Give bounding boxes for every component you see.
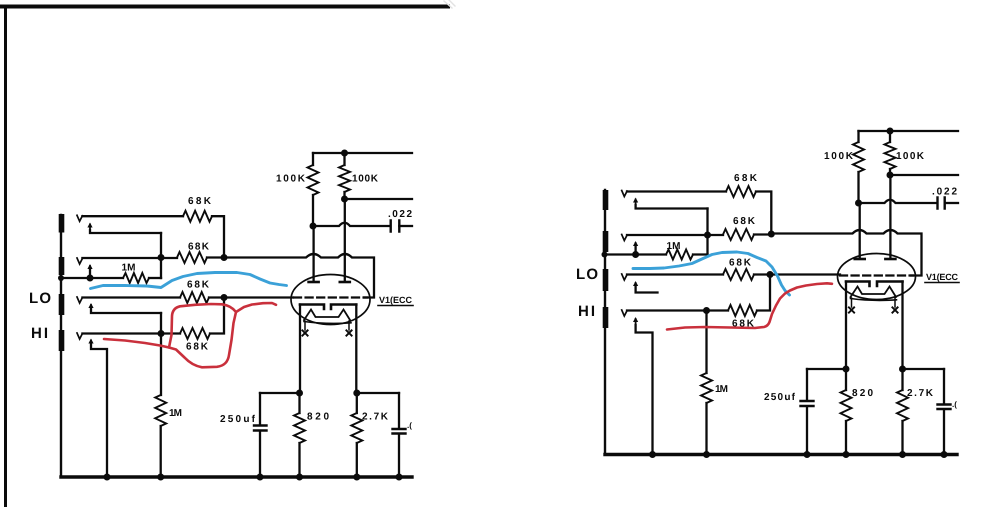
jack J7 LO tip contact V [622,274,627,280]
ground dot R10 [296,474,303,481]
resistor R2 68K (input J2) [177,252,207,263]
jack J4 HI tip contact V [77,333,82,339]
wire bus to 1M (right) [603,253,666,255]
junction dot J2 arrow [87,275,94,282]
node B2 junction dot [768,231,775,238]
jack J3 spring arrow [90,305,92,309]
wire J6 tip [627,234,723,236]
wire R13 right to node B2 [754,233,771,235]
heater lead 1 (right) [851,298,853,307]
svg-text:68K: 68K [186,342,209,353]
wire J4 tip to R5 [82,332,180,334]
cathode bracket left [300,305,324,310]
red annotation loop bottom (left circuit) [169,312,236,367]
resistor R10 820 [298,393,300,413]
wire R15 to grid1 of V1 (right) [754,273,840,275]
wire R4 to grid1 of V1 [209,296,293,298]
wire J1 arrow down/right [90,230,161,233]
svg-text:1M: 1M [667,241,681,252]
wire J7 tip to R15 [627,273,723,275]
resistor R5 68K (HI) [180,328,210,339]
node D2 junction dot [703,307,710,314]
grid dashed line [294,296,367,298]
resistor R7 1M (to ground) [155,395,166,426]
wire plate1 to C4 with hop [859,200,938,203]
ground dot J4 [104,474,111,481]
wire plate1 to C1 with hop [313,223,390,226]
junction dot on bus [58,275,64,281]
wire J8 arrow to ground [636,325,653,455]
junction dot J6 arrow [632,251,639,258]
jack J6 tip contact V [622,235,627,241]
jack J8 HI body bar [603,307,609,328]
svg-text:V1(ECC: V1(ECC [926,272,959,282]
wire R5 up to node C [210,298,224,334]
wire plate2 output [345,198,413,200]
ground bus vertical (left) [60,215,62,476]
resistor R11 2.7K [356,393,358,413]
cathode bracket right [331,305,356,310]
jack J1 body bar [59,214,65,233]
jack J7 LO body bar [603,269,609,291]
svg-text:.(: .( [407,421,412,430]
node G2 dot [843,366,850,373]
heater lead 2 [348,321,350,330]
svg-text:100K: 100K [824,151,854,162]
blue annotation line (right circuit) [633,252,790,295]
ground dot R7 [157,474,164,481]
node F dot (plate1/coupling) [310,223,317,230]
wire J5 tip to R12 [627,190,726,192]
resistor R13 68K [723,229,754,240]
heater base line [304,322,351,324]
cathode bracket left (right tube) [846,282,870,287]
jack J3 LO tip contact V [77,297,82,303]
cathode bracket right (right tube) [877,282,903,287]
red annotation line (right circuit) [667,283,832,329]
svg-text:68K: 68K [187,280,210,291]
wire J3 arrow to 1M column [91,308,161,313]
capacitor C4 .022 [938,198,945,209]
plate supply top wire (right) [859,130,959,132]
wire J2 arrow to node dot [89,269,91,278]
wire vertical to node A [160,233,162,278]
triode V1 envelope (right) [838,254,916,300]
jack J1 spring arrow [89,225,91,232]
wire node B to grid2 with crossover hops [224,254,374,298]
cathode lead left (right tube) [845,282,847,370]
plate bar 2 [340,281,350,284]
node B junction dot [221,254,228,261]
node C junction dot [221,294,228,301]
node F2 dot [855,200,862,207]
jack J5 spring arrow [635,200,637,207]
svg-text:.022: .022 [388,209,412,220]
jack J5 body bar [603,190,609,210]
cathode stub wire to C5 [807,368,846,370]
jack J7 spring arrow [635,283,637,288]
ground dot R17 [703,451,710,458]
wire R12 right down [756,192,771,235]
wire node B2 to grid2 with hops [771,230,921,276]
capacitor C1 .022 [391,221,400,232]
resistor R15 68K [723,269,754,280]
capacitor C5 250uf [806,369,808,400]
svg-text:68K: 68K [188,196,212,207]
resistor R14 1M (horizontal) [666,250,693,260]
node G dot (820 top) [296,390,303,397]
node D junction dot (HI tip) [158,330,165,337]
svg-text:1M: 1M [122,263,136,274]
jack J2 spring arrow [89,266,91,271]
svg-text:1M: 1M [715,384,728,395]
capacitor C6 [943,369,945,404]
wire 1M right to node A column [149,277,161,279]
wire J5 arrow down/right [636,205,708,209]
jack J2 tip contact V [77,258,82,264]
svg-text:100K: 100K [352,174,379,185]
svg-text:LO: LO [576,266,598,283]
plate lead 1 (right) [859,203,861,258]
ground dot C2 [257,474,264,481]
svg-text:68K: 68K [734,173,758,184]
wire down to R7 1M [160,313,162,395]
jack J1 tip contact V [77,215,82,221]
ground dot C5 [804,451,811,458]
cathode lead left [299,305,301,394]
plate bar 1 [309,281,319,284]
svg-text:.022: .022 [932,187,957,198]
node A2 junction dot [704,232,711,239]
ground dot R21 [899,451,906,458]
plate bar 2 (right) [885,258,895,261]
ground dot R11 [353,474,360,481]
svg-text:100K: 100K [896,151,925,162]
node E2 dot [887,172,894,179]
wire node H2 to C6 [903,368,945,370]
wire J8 tip to R16 [627,309,728,311]
wire R1 right to junction column [212,216,224,257]
wire J6 arrow to node dot [634,246,636,255]
node H dot (2.7K top) [353,390,360,397]
resistor R3 1M (grid leak, horizontal) [123,273,149,283]
red annotation line (left circuit) [104,303,276,348]
heater base line (right) [851,299,897,301]
blue annotation line (left circuit) [91,273,287,289]
svg-text:68K: 68K [729,258,752,269]
resistor R19 100K [889,131,891,142]
svg-text:.(: .( [952,400,957,409]
ground rail (left) [61,475,412,478]
plate lead 2 [344,199,346,281]
svg-text:HI: HI [578,303,595,320]
triode V1 envelope (left) [291,275,370,325]
svg-text:2.7K: 2.7K [362,412,389,423]
heater lead 1 [304,321,306,330]
jack J3 LO body bar [59,294,65,315]
node C2 junction dot [767,271,774,278]
resistor R16 68K [728,305,757,316]
jack J6 body bar [603,231,609,252]
node H2 dot [899,366,906,373]
jack J6 spring arrow [635,243,637,248]
svg-text:1M: 1M [169,408,182,419]
svg-text:V1(ECC: V1(ECC [379,295,413,305]
wire J4 arrow to ground [91,344,107,477]
jack J2 body bar [59,257,65,275]
plate supply top wire (left) [313,152,412,154]
plate lead 2 (right) [889,175,891,258]
ground dot R20 [843,451,850,458]
resistor R21 2.7K [901,369,903,390]
plate lead 1 [312,226,314,281]
junction dot top wire [341,150,348,157]
jack J4 spring arrow [90,341,92,346]
svg-text:250uf: 250uf [220,414,256,425]
resistor R9 100K (plate 2) [343,153,345,165]
wire R2 right to node B [207,256,224,258]
resistor R18 100K [857,131,859,142]
junction dot on bus (right) [602,252,608,258]
capacitor C3 [398,393,400,428]
svg-text:100K: 100K [276,174,306,185]
wire 1M right [693,253,708,255]
wire node D2 down to R17 [705,311,707,374]
wire J1 tip to R1 [82,215,183,217]
ground bus vertical (right) [604,190,606,453]
scan smudge [444,0,455,8]
resistor R12 68K [726,186,756,197]
wire R17 to ground [705,403,707,455]
capacitor C2 250uf [259,393,261,425]
svg-text:820: 820 [852,388,873,399]
jack J8 spring arrow [635,319,637,326]
resistor R20 820 [845,369,847,390]
wire J7 arrow stub (disconnected mod) [636,287,658,293]
junction dot top wire right [887,128,894,135]
svg-text:HI: HI [31,325,48,342]
wire vertical to node A2 [706,209,708,255]
wire J3 tip to R4 [82,296,180,298]
page border top [0,5,450,9]
jack J4 HI body bar [59,330,65,351]
wire R16 up to node C2 [757,275,770,311]
wire plate2 output (right) [890,174,958,176]
wire R7 to ground [160,426,162,477]
jack J8 HI tip contact V [622,310,627,316]
ground dot C6 [941,451,948,458]
svg-text:68K: 68K [733,216,756,227]
plate bar 1 (right) [855,258,865,261]
svg-text:2.7K: 2.7K [907,388,934,399]
jack J5 tip contact V [622,191,627,197]
page border left [4,5,7,507]
cathode lead right [355,305,357,394]
resistor R17 1M (to ground right) [701,373,712,403]
cathode stub wire to C2 [260,392,300,394]
node A junction dot [158,254,165,261]
cathode lead right (right tube) [901,282,903,370]
heater filament (right) [851,287,897,298]
svg-text:250uf: 250uf [764,392,796,403]
resistor R8 100K (plate 1) [312,153,314,165]
wire bus to 1M [61,277,123,279]
resistor R1 68K (input J1) [183,211,212,222]
wire J2 tip [82,257,177,259]
grid dashed line (right) [840,274,913,276]
svg-text:68K: 68K [188,242,210,253]
wire node H to C3 [357,392,399,394]
svg-text:LO: LO [29,290,51,307]
heater filament [304,310,350,321]
ground dot C3 [396,474,403,481]
node E dot (plate2/output) [341,196,348,203]
resistor R4 68K (LO) [180,292,209,303]
ground dot J8 [649,451,656,458]
heater lead 2 (right) [894,298,896,307]
ground rail (right) [605,453,957,456]
svg-text:820: 820 [307,412,329,423]
